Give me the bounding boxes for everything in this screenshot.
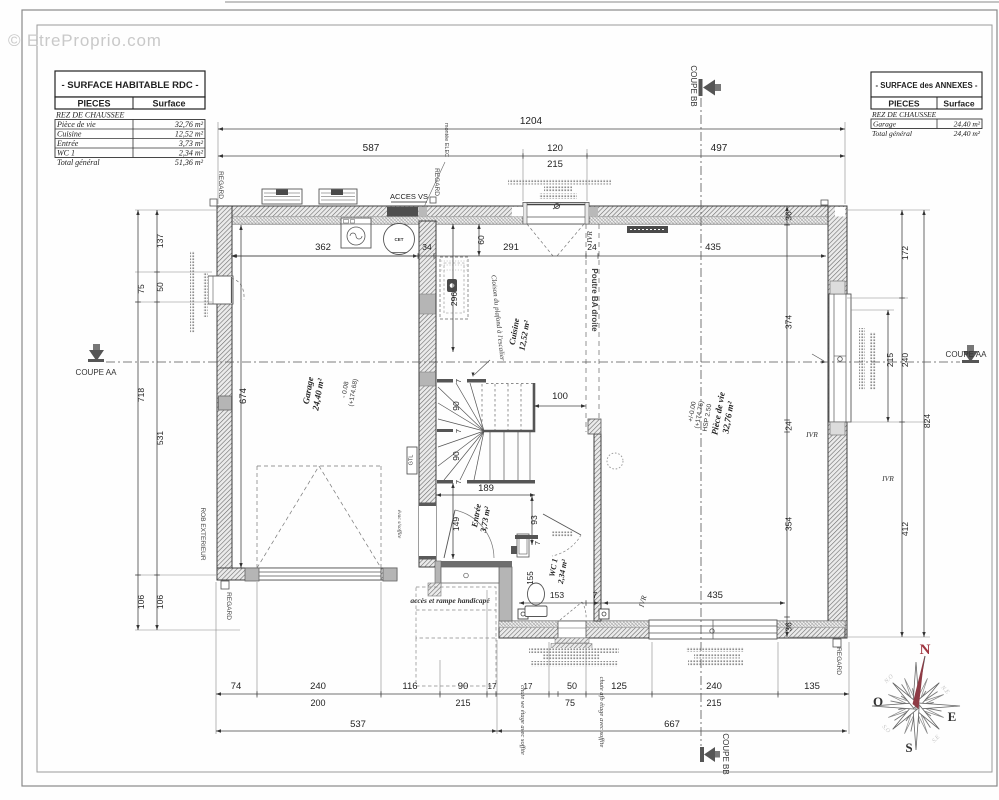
- door jamb: party wall top: [419, 503, 436, 507]
- svg-text:240: 240: [706, 681, 722, 692]
- svg-text:374: 374: [784, 315, 794, 329]
- table1 header divider: [132, 97, 134, 109]
- svg-text:7: 7: [533, 541, 542, 545]
- door leaf: garage-entrée: [444, 510, 455, 558]
- svg-text:WC 1: WC 1: [57, 149, 75, 158]
- svg-text:Total général: Total général: [57, 158, 100, 167]
- opening: top-right corner notch: [835, 207, 845, 217]
- dim row 362/34/291/24/435: [231, 253, 826, 259]
- water heater CET: [384, 224, 415, 255]
- stair wall bar bottom-right: [467, 480, 535, 484]
- svg-text:Entrée: Entrée: [56, 139, 79, 148]
- opening: white gap left of window: [512, 207, 523, 217]
- radiator 1 above garage: [262, 189, 302, 204]
- svg-text:100: 100: [552, 391, 568, 402]
- door swing: garage left door dashed: [231, 278, 244, 300]
- window: right wall sill bottom: [830, 422, 845, 435]
- ext lines top dims: [218, 122, 845, 204]
- door: garage left wall: [208, 276, 233, 304]
- WC door leaf: [543, 514, 581, 535]
- svg-text:chute we étage avec soffite: chute we étage avec soffite: [519, 685, 526, 755]
- svg-text:354: 354: [784, 517, 794, 531]
- svg-text:137: 137: [155, 234, 165, 248]
- washing machine: [341, 218, 371, 248]
- gray post: garage bottom right: [383, 568, 397, 581]
- dim row 1204: [218, 127, 845, 130]
- ACCES VS underline: [391, 201, 427, 203]
- tiny text strip above wall 2: [544, 187, 572, 193]
- svg-text:chute afb étage avec soffite: chute afb étage avec soffite: [598, 677, 605, 748]
- dim 362 garage width: [232, 254, 418, 257]
- dim col left inner: [154, 210, 160, 630]
- svg-text:7: 7: [454, 480, 463, 484]
- svg-text:évac s/soffite: évac s/soffite: [396, 510, 403, 539]
- table2 header divider: [936, 97, 938, 109]
- dim 435 séjour bottom: [599, 601, 785, 604]
- svg-text:90: 90: [451, 451, 461, 461]
- svg-text:296: 296: [449, 292, 459, 306]
- GTL box: [407, 447, 417, 474]
- regard square bottom-right: [833, 639, 841, 647]
- svg-text:172: 172: [900, 246, 910, 260]
- svg-text:667: 667: [664, 719, 680, 730]
- stair wall bar mid: [437, 429, 453, 432]
- svg-text:215: 215: [455, 698, 470, 708]
- wall: dark post below VS junction: [420, 224, 425, 245]
- vent: small box above top wall right: [821, 200, 828, 205]
- kitchen dashed unit outer: [440, 257, 468, 319]
- garage door dashed box: [257, 466, 381, 568]
- opening: gray block right of window (beam): [589, 207, 598, 217]
- svg-text:32,76 m²: 32,76 m²: [174, 120, 204, 129]
- dim 100 landing: [534, 404, 586, 407]
- opening: VS dark segment in top wall: [387, 207, 418, 217]
- window: right handicap mark: [838, 357, 843, 362]
- dotted strips below porch A: [529, 648, 619, 667]
- svg-text:116: 116: [402, 681, 417, 692]
- beam label dark box: [627, 226, 668, 233]
- svg-text:Surface: Surface: [152, 99, 185, 109]
- stair steps lower flight: [490, 432, 530, 481]
- window: bottom bay window séjour: [649, 620, 777, 639]
- dim 674 garage height: [239, 225, 242, 568]
- svg-text:17: 17: [488, 682, 497, 691]
- dotted strips below window B: [686, 647, 744, 666]
- pivot box left of entry door: [518, 609, 528, 619]
- svg-text:90: 90: [451, 401, 461, 411]
- svg-text:149: 149: [451, 517, 461, 531]
- ext lines right dims: [790, 210, 930, 637]
- coupe BB top marker: [699, 79, 722, 96]
- svg-text:718: 718: [136, 388, 146, 402]
- svg-text:N: N: [920, 642, 931, 658]
- regard square near ACCES: [430, 197, 436, 203]
- svg-text:153: 153: [550, 590, 564, 600]
- pivot box right of entry door: [599, 609, 609, 619]
- WC wall stub: [515, 535, 538, 539]
- coupe BB bottom marker: [700, 747, 720, 762]
- svg-text:537: 537: [350, 719, 366, 730]
- svg-text:montée ELEC: montée ELEC: [443, 123, 449, 157]
- beam dashed lines (poutre): [586, 224, 599, 432]
- door: garage sectional door: [257, 568, 381, 580]
- stair dashed top edge: [486, 383, 533, 385]
- dim 189 under stairs: [436, 493, 535, 496]
- svg-text:412: 412: [900, 522, 910, 536]
- tiny text strip above wall 1: [508, 179, 611, 185]
- opening: gray block next to VS: [419, 207, 428, 217]
- tiny text strip above wall 3: [539, 194, 577, 200]
- dim col right inner 172/240/412: [899, 210, 905, 637]
- svg-text:106: 106: [155, 595, 165, 609]
- dim 93 below stairs: [530, 496, 533, 545]
- compass rose star: [872, 662, 960, 750]
- svg-text:PIECES: PIECES: [888, 99, 920, 109]
- wall: porch left gray block: [435, 561, 441, 586]
- dim row bottom 667: [497, 729, 847, 732]
- svg-text:Cuisine: Cuisine: [57, 130, 82, 139]
- lave-mains WC: [517, 534, 529, 557]
- svg-text:240: 240: [310, 681, 326, 692]
- svg-text:7: 7: [454, 379, 463, 383]
- svg-text:189: 189: [478, 483, 494, 494]
- window: top (120) kitchen french door: [523, 203, 589, 225]
- dim col right outer 824: [922, 210, 925, 637]
- svg-text:CET: CET: [395, 237, 404, 242]
- door swing: garage-entrée arc: [455, 510, 494, 558]
- table2 data divider: [936, 119, 938, 129]
- wall: bottom inner leaf band: [499, 621, 845, 628]
- svg-text:215: 215: [547, 159, 563, 170]
- svg-text:93: 93: [529, 515, 539, 525]
- compass needle north: [913, 656, 926, 709]
- dim col left outer: [135, 210, 141, 630]
- stair wall bar top-right: [467, 379, 486, 383]
- svg-text:7: 7: [454, 429, 463, 433]
- svg-text:75: 75: [565, 698, 575, 708]
- dark block beside lave-mains: [511, 546, 517, 554]
- svg-text:106: 106: [136, 595, 146, 609]
- beam hatched block: [588, 419, 601, 434]
- svg-text:7: 7: [593, 591, 598, 600]
- porch slab: [441, 567, 499, 583]
- small arrow AA at right wall: [812, 354, 826, 364]
- kitchen dashed unit inner: [444, 263, 464, 313]
- wall: right exterior: [828, 206, 847, 638]
- entry steps hatched 1: [555, 638, 589, 643]
- window: top handicap mark: [553, 203, 561, 209]
- tiny strip right wall 1: [859, 328, 865, 390]
- table2 title box: [871, 72, 982, 97]
- door swing: entry door dashed: [560, 602, 586, 620]
- wall: porch side (gray): [499, 567, 512, 621]
- WC door swing dashed: [552, 535, 581, 556]
- stair landing wall L: [484, 383, 534, 431]
- coupe BB dash-dot line: [700, 98, 702, 746]
- tiny strip right wall 2: [870, 332, 876, 390]
- svg-text:PIECES: PIECES: [77, 99, 110, 109]
- tiny label strip WC: [552, 532, 573, 538]
- window: bottom handicap mark: [710, 629, 714, 633]
- svg-text:2,34 m²: 2,34 m²: [179, 149, 204, 158]
- svg-text:51,36 m²: 51,36 m²: [175, 158, 204, 167]
- svg-text:24,40 m²: 24,40 m²: [954, 129, 981, 138]
- table2 header box: [871, 97, 982, 109]
- tiny strip left wall 2: [203, 272, 208, 317]
- wall: cloison WC / séjour: [594, 434, 601, 621]
- table1 title box: [55, 71, 205, 97]
- dim col right wall 36/374/24/354/36: [784, 206, 790, 637]
- wall: entrée front bar: [441, 561, 512, 567]
- leader line cloison: [472, 360, 491, 377]
- svg-text:50: 50: [155, 282, 165, 292]
- svg-text:155: 155: [526, 571, 535, 585]
- regard square bottom-left: [221, 581, 229, 589]
- dim 149 entrée: [451, 483, 454, 559]
- coupe AA left marker: [88, 344, 104, 362]
- svg-text:36: 36: [784, 622, 794, 632]
- svg-text:531: 531: [155, 431, 165, 445]
- svg-text:REGARD: REGARD: [433, 168, 440, 196]
- ext lines left dims: [135, 210, 240, 630]
- ramp dashed outline: [416, 587, 496, 686]
- toilet WC: [525, 583, 547, 617]
- kitchen sink symbol: [447, 279, 457, 292]
- svg-text:135: 135: [804, 681, 820, 692]
- dim 153 line: [519, 600, 599, 606]
- svg-text:accès et rampe handicapé: accès et rampe handicapé: [410, 596, 490, 605]
- svg-text:34: 34: [422, 242, 432, 252]
- svg-text:ROB EXTERIEUR: ROB EXTERIEUR: [199, 507, 206, 560]
- wall: party wall garage/house: [419, 221, 436, 567]
- svg-text:COUPE AA: COUPE AA: [946, 350, 988, 359]
- svg-text:120: 120: [547, 143, 563, 154]
- svg-text:435: 435: [707, 590, 723, 601]
- coupe AA right marker: [962, 345, 979, 363]
- svg-text:36: 36: [784, 211, 794, 221]
- kitchen dotted rows: [441, 261, 467, 270]
- svg-text:REZ DE CHAUSSEE: REZ DE CHAUSSEE: [871, 110, 937, 119]
- svg-text:24: 24: [784, 421, 794, 431]
- svg-text:215: 215: [706, 698, 721, 708]
- svg-text:REGARD: REGARD: [225, 592, 232, 620]
- svg-text:3,73 m²: 3,73 m²: [178, 139, 204, 148]
- svg-text:REGARD: REGARD: [217, 171, 224, 199]
- stair wall bar bottom-left: [437, 480, 453, 484]
- porch handicap mark: [464, 573, 469, 578]
- dim row bottom 537: [216, 729, 497, 732]
- leader montée ELEC: [424, 162, 445, 207]
- svg-text:75: 75: [136, 284, 146, 294]
- door: party wall gap: [419, 506, 436, 556]
- svg-text:- SURFACE des ANNEXES -: - SURFACE des ANNEXES -: [876, 81, 978, 90]
- svg-text:Poutre BA droite: Poutre BA droite: [590, 268, 599, 332]
- dim 296 kitchen: [451, 224, 454, 352]
- dim 60 kitchen: [477, 224, 480, 256]
- door swing: kitchen french door dashed: [527, 224, 584, 256]
- svg-text:Garage: Garage: [873, 120, 897, 129]
- wall: left exterior (garage): [217, 206, 232, 580]
- svg-text:824: 824: [922, 414, 932, 428]
- svg-text:291: 291: [503, 242, 519, 253]
- table1 row lines: [55, 120, 205, 158]
- svg-text:74: 74: [231, 681, 242, 692]
- svg-text:E: E: [948, 709, 957, 724]
- svg-text:435: 435: [705, 242, 721, 253]
- svg-text:ACCES VS: ACCES VS: [390, 192, 428, 201]
- svg-text:© EtreProprio.com: © EtreProprio.com: [8, 31, 162, 50]
- door jamb: party wall bottom: [419, 556, 436, 560]
- window: right wall: [829, 294, 851, 422]
- dim row 587/120/497: [218, 153, 845, 159]
- svg-text:IVR: IVR: [881, 474, 894, 483]
- scan edge line: [225, 1, 999, 3]
- stair dashed steps upper flight: [482, 384, 521, 430]
- svg-text:S: S: [905, 740, 912, 755]
- table1 data box: [55, 120, 205, 158]
- stair winder fan lines: [438, 383, 484, 480]
- wall: bottom (entry + séjour): [499, 621, 845, 638]
- svg-text:Total général: Total général: [872, 129, 912, 138]
- window: right wall sill top: [830, 281, 845, 294]
- svg-text:24: 24: [587, 242, 597, 252]
- stair wall bar top-left: [437, 379, 453, 383]
- svg-text:COUPE BB: COUPE BB: [689, 65, 698, 106]
- svg-text:O: O: [873, 694, 883, 709]
- svg-text:REGARD: REGARD: [835, 647, 842, 675]
- wall: garage bottom: [217, 568, 397, 580]
- ceiling light dotted circle: [607, 453, 623, 469]
- svg-text:90: 90: [458, 681, 469, 692]
- svg-text:587: 587: [363, 143, 380, 154]
- svg-text:REZ DE CHAUSSEE: REZ DE CHAUSSEE: [55, 111, 125, 120]
- gray post: party wall lower: [420, 372, 436, 386]
- svg-text:GTL: GTL: [409, 455, 415, 466]
- svg-text:497: 497: [711, 143, 728, 154]
- svg-text:240: 240: [900, 353, 910, 367]
- svg-text:362: 362: [315, 242, 331, 253]
- wall: top exterior: [217, 206, 845, 224]
- svg-text:200: 200: [310, 698, 325, 708]
- svg-text:IVR: IVR: [805, 430, 818, 439]
- svg-text:COUPE BB: COUPE BB: [721, 733, 730, 774]
- porch hatched block: [428, 583, 441, 596]
- ext lines bottom dims: [216, 582, 849, 734]
- svg-text:24,40 m²: 24,40 m²: [954, 120, 981, 129]
- svg-text:- SURFACE HABITABLE RDC -: - SURFACE HABITABLE RDC -: [61, 80, 198, 91]
- svg-text:COUPE AA: COUPE AA: [76, 368, 118, 377]
- radiator 2 above garage: [319, 189, 357, 204]
- svg-text:Pièce de vie: Pièce de vie: [56, 120, 96, 129]
- svg-text:215: 215: [885, 353, 895, 367]
- svg-text:1204: 1204: [520, 116, 543, 127]
- wall: top inner leaf band: [217, 217, 845, 225]
- table2 data box: [871, 119, 982, 129]
- door: entry door gap: [558, 621, 586, 638]
- gray post: garage bottom left: [245, 568, 259, 581]
- dim row bottom 1: [216, 691, 849, 697]
- svg-text:Surface: Surface: [943, 99, 974, 109]
- gray post: left wall middle: [219, 396, 232, 410]
- entry steps hatched 2: [551, 644, 592, 650]
- svg-text:50: 50: [567, 681, 577, 691]
- tiny strip left wall 1: [190, 251, 195, 333]
- coupe AA dash-dot line: [106, 361, 960, 363]
- regard square top-left: [210, 199, 217, 206]
- svg-text:60: 60: [476, 235, 486, 245]
- svg-text:125: 125: [611, 681, 627, 692]
- svg-text:12,52 m²: 12,52 m²: [175, 130, 204, 139]
- svg-text:674: 674: [238, 388, 249, 404]
- gray post: party wall upper: [420, 294, 436, 314]
- dim col right mid 215: [886, 310, 889, 422]
- table1 header box: [55, 97, 205, 109]
